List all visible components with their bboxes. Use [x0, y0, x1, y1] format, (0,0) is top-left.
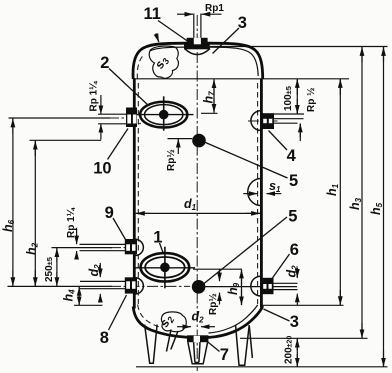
svg-text:7: 7: [220, 346, 229, 364]
svg-text:250±5: 250±5: [44, 257, 55, 282]
svg-text:h6: h6: [1, 219, 16, 232]
svg-text:9: 9: [105, 204, 114, 222]
svg-text:s1: s1: [269, 179, 281, 194]
svg-text:11: 11: [144, 5, 161, 23]
svg-text:s3: s3: [152, 54, 171, 72]
svg-text:Rp 1¼: Rp 1¼: [66, 207, 77, 238]
svg-text:3: 3: [290, 313, 299, 331]
svg-text:h2: h2: [25, 242, 40, 255]
svg-text:h1: h1: [325, 183, 340, 196]
svg-text:6: 6: [290, 241, 299, 259]
svg-text:10: 10: [93, 159, 111, 177]
svg-text:5: 5: [289, 172, 298, 190]
svg-text:Rp1: Rp1: [205, 3, 224, 14]
svg-text:d2: d2: [285, 265, 300, 278]
svg-text:100±5: 100±5: [283, 86, 294, 111]
svg-text:5: 5: [288, 207, 297, 225]
svg-text:d1: d1: [184, 197, 197, 212]
svg-text:Rp½: Rp½: [208, 293, 219, 315]
svg-text:4: 4: [287, 147, 297, 165]
svg-text:h9: h9: [226, 282, 241, 295]
svg-text:Rp½: Rp½: [166, 149, 177, 171]
svg-text:h7: h7: [202, 91, 217, 104]
svg-text:Rp ½: Rp ½: [306, 88, 317, 112]
svg-text:8: 8: [100, 329, 109, 347]
svg-text:h3: h3: [348, 197, 363, 210]
svg-text:d2: d2: [192, 310, 205, 325]
svg-text:Rp 1¼: Rp 1¼: [89, 81, 100, 112]
svg-text:h5: h5: [369, 202, 384, 215]
svg-text:s2: s2: [157, 312, 176, 330]
svg-text:1: 1: [153, 228, 162, 246]
svg-text:h4: h4: [62, 289, 77, 302]
svg-text:3: 3: [238, 14, 247, 32]
svg-text:d2: d2: [87, 264, 102, 277]
svg-text:2: 2: [100, 54, 109, 72]
svg-text:200±20: 200±20: [284, 336, 295, 364]
